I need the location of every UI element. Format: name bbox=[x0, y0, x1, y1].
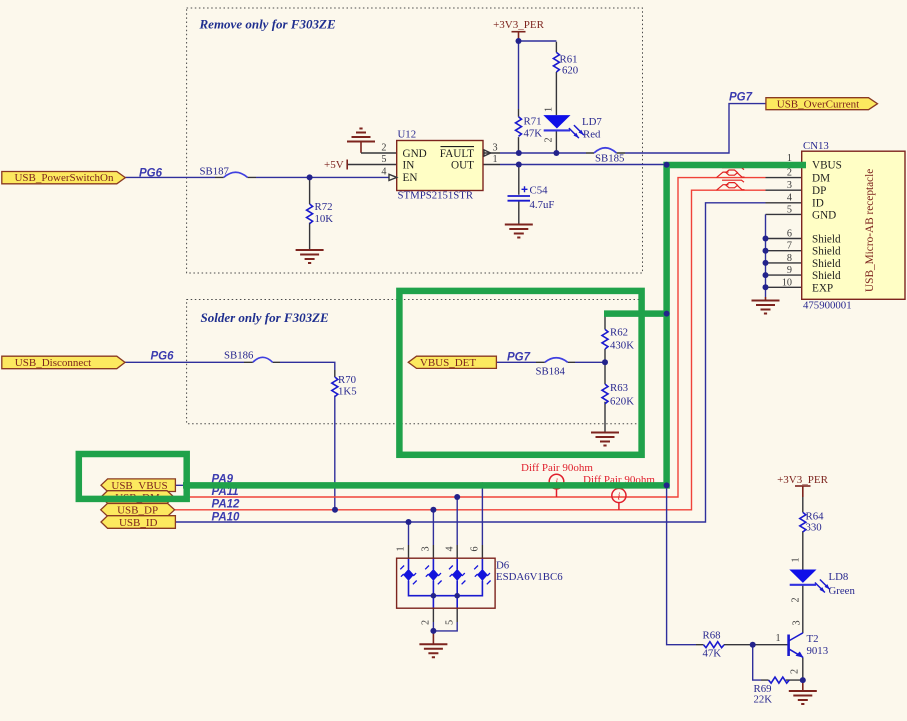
svg-text:Shield: Shield bbox=[812, 234, 841, 246]
svg-text:Shield: Shield bbox=[812, 270, 841, 282]
svg-text:620K: 620K bbox=[610, 396, 634, 408]
svg-text:USB_VBUS: USB_VBUS bbox=[111, 480, 167, 492]
svg-text:USB_PowerSwitchOn: USB_PowerSwitchOn bbox=[14, 172, 114, 184]
svg-text:1: 1 bbox=[776, 633, 781, 644]
svg-text:IN: IN bbox=[403, 160, 415, 172]
svg-text:2: 2 bbox=[421, 620, 432, 625]
svg-text:10: 10 bbox=[782, 277, 792, 288]
svg-text:PG7: PG7 bbox=[729, 92, 753, 104]
svg-text:Shield: Shield bbox=[812, 258, 841, 270]
svg-text:R63: R63 bbox=[610, 382, 628, 394]
svg-text:Shield: Shield bbox=[812, 246, 841, 258]
svg-text:330: 330 bbox=[806, 522, 822, 534]
svg-text:22K: 22K bbox=[754, 694, 773, 706]
svg-text:PG6: PG6 bbox=[151, 351, 175, 363]
svg-text:475900001: 475900001 bbox=[803, 300, 852, 312]
svg-text:R72: R72 bbox=[315, 201, 333, 213]
svg-text:ID: ID bbox=[812, 198, 824, 210]
svg-text:2: 2 bbox=[544, 137, 555, 142]
svg-text:4: 4 bbox=[787, 193, 792, 204]
svg-text:VBUS_DET: VBUS_DET bbox=[420, 357, 477, 369]
svg-text:10K: 10K bbox=[315, 213, 334, 225]
svg-text:2: 2 bbox=[381, 143, 386, 154]
svg-text:PA12: PA12 bbox=[212, 499, 241, 511]
svg-text:C54: C54 bbox=[530, 185, 549, 197]
svg-text:2: 2 bbox=[787, 168, 792, 179]
svg-text:5: 5 bbox=[381, 154, 386, 165]
svg-text:6: 6 bbox=[470, 546, 481, 551]
svg-text:GND: GND bbox=[812, 210, 836, 222]
svg-text:1: 1 bbox=[791, 557, 802, 562]
svg-text:7: 7 bbox=[787, 241, 792, 252]
svg-text:LD8: LD8 bbox=[829, 571, 849, 583]
svg-text:620: 620 bbox=[562, 65, 578, 77]
svg-text:Remove only for F303ZE: Remove only for F303ZE bbox=[199, 17, 336, 32]
svg-text:47K: 47K bbox=[524, 128, 543, 140]
svg-text:+5V: +5V bbox=[324, 159, 344, 171]
svg-text:GND: GND bbox=[403, 148, 427, 160]
svg-text:+3V3_PER: +3V3_PER bbox=[493, 19, 544, 31]
svg-text:i: i bbox=[617, 491, 620, 503]
svg-text:VBUS: VBUS bbox=[812, 160, 842, 172]
svg-text:R71: R71 bbox=[524, 116, 542, 128]
svg-text:3: 3 bbox=[792, 620, 803, 625]
svg-text:DM: DM bbox=[812, 173, 830, 185]
svg-text:2: 2 bbox=[790, 669, 801, 674]
svg-text:SB185: SB185 bbox=[595, 153, 624, 165]
svg-text:EN: EN bbox=[403, 172, 418, 184]
svg-text:DP: DP bbox=[812, 185, 826, 197]
svg-text:U12: U12 bbox=[398, 129, 417, 141]
svg-text:6: 6 bbox=[787, 229, 792, 240]
svg-text:USB_ID: USB_ID bbox=[119, 517, 158, 529]
svg-text:1K5: 1K5 bbox=[338, 386, 357, 398]
svg-text:9013: 9013 bbox=[807, 645, 829, 657]
svg-text:R62: R62 bbox=[610, 327, 628, 339]
svg-text:4: 4 bbox=[381, 167, 386, 178]
svg-text:PG7: PG7 bbox=[507, 352, 531, 364]
svg-text:+3V3_PER: +3V3_PER bbox=[777, 474, 828, 486]
svg-text:EXP: EXP bbox=[812, 283, 833, 295]
svg-text:T2: T2 bbox=[807, 633, 819, 645]
svg-text:1: 1 bbox=[544, 107, 555, 112]
svg-text:9: 9 bbox=[787, 265, 792, 276]
svg-text:3: 3 bbox=[421, 546, 432, 551]
svg-text:FAULT: FAULT bbox=[440, 148, 474, 160]
svg-text:CN13: CN13 bbox=[803, 140, 829, 152]
svg-text:3: 3 bbox=[787, 180, 792, 191]
svg-text:5: 5 bbox=[787, 205, 792, 216]
svg-text:SB186: SB186 bbox=[224, 350, 254, 362]
svg-text:STMPS2151STR: STMPS2151STR bbox=[398, 190, 474, 202]
svg-text:USB_OverCurrent: USB_OverCurrent bbox=[777, 98, 860, 110]
svg-text:R68: R68 bbox=[703, 630, 721, 642]
svg-text:Green: Green bbox=[829, 585, 856, 597]
svg-text:USB_Disconnect: USB_Disconnect bbox=[15, 357, 91, 369]
svg-text:LD7: LD7 bbox=[582, 116, 602, 128]
svg-text:4.7uF: 4.7uF bbox=[530, 199, 555, 211]
svg-text:ESDA6V1BC6: ESDA6V1BC6 bbox=[496, 571, 563, 583]
svg-text:47K: 47K bbox=[703, 648, 722, 660]
svg-text:R70: R70 bbox=[338, 374, 356, 386]
svg-text:D6: D6 bbox=[496, 560, 510, 572]
svg-text:OUT: OUT bbox=[451, 160, 474, 172]
svg-text:Red: Red bbox=[583, 129, 601, 141]
svg-text:USB_Micro-AB receptacle: USB_Micro-AB receptacle bbox=[864, 169, 876, 292]
svg-text:4: 4 bbox=[445, 546, 456, 551]
svg-text:8: 8 bbox=[787, 253, 792, 264]
svg-text:SB184: SB184 bbox=[536, 366, 566, 378]
svg-text:1: 1 bbox=[396, 546, 407, 551]
svg-text:5: 5 bbox=[445, 620, 456, 625]
svg-text:430K: 430K bbox=[610, 340, 634, 352]
svg-text:1: 1 bbox=[493, 154, 498, 165]
svg-text:Diff Pair 90ohm: Diff Pair 90ohm bbox=[521, 462, 593, 474]
svg-text:PG6: PG6 bbox=[139, 168, 163, 180]
svg-text:2: 2 bbox=[791, 597, 802, 602]
svg-text:PA10: PA10 bbox=[212, 512, 241, 524]
svg-text:3: 3 bbox=[493, 143, 498, 154]
svg-text:Solder only for F303ZE: Solder only for F303ZE bbox=[201, 310, 330, 325]
svg-text:USB_DP: USB_DP bbox=[117, 505, 158, 517]
svg-text:SB187: SB187 bbox=[200, 166, 230, 178]
